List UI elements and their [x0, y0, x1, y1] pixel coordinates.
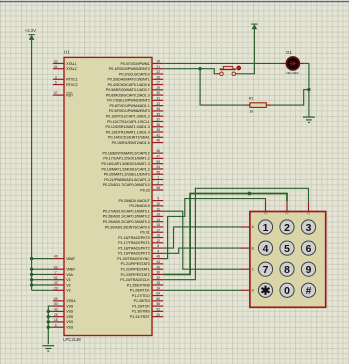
wire keypad row A from U1: [163, 227, 240, 248]
wire +3.3V rail to VBAT/VREF/V3A/V3: [31, 40, 33, 290]
svg-text:XTAL1: XTAL1: [66, 62, 76, 66]
svg-text:P0.0/TXD0/PWM1: P0.0/TXD0/PWM1: [120, 62, 149, 66]
svg-text:20: 20: [156, 313, 160, 317]
svg-text:P0.14/DCD1/EINT1/SDA1: P0.14/DCD1/EINT1/SDA1: [108, 136, 150, 140]
svg-text:VSS: VSS: [66, 320, 74, 324]
svg-text:36: 36: [156, 271, 160, 275]
U1 left pin stubs: [53, 63, 64, 327]
wire branch pin row 39: [32, 268, 53, 270]
svg-text:P0.10/RTS1/CAP1.0/AD1.2: P0.10/RTS1/CAP1.0/AD1.2: [106, 115, 150, 119]
wire net P0.0 to LED D1 anode: [163, 62, 281, 64]
svg-text:9: 9: [306, 265, 312, 276]
svg-text:14: 14: [156, 218, 160, 222]
svg-text:35: 35: [156, 112, 160, 116]
svg-text:D1: D1: [286, 50, 292, 55]
keypad key 5: [280, 241, 294, 255]
wire junction VSS rail row 50: [47, 326, 50, 329]
svg-text:41: 41: [156, 133, 160, 137]
svg-text:RST: RST: [66, 93, 74, 97]
svg-text:60: 60: [156, 297, 160, 301]
svg-text:26: 26: [156, 75, 160, 79]
U1 left pin numbers: [54, 60, 58, 328]
svg-text:33: 33: [156, 102, 160, 106]
svg-text:1: 1: [157, 176, 159, 180]
svg-text:LED-RED: LED-RED: [286, 71, 299, 75]
svg-text:8: 8: [157, 244, 159, 248]
svg-text:29: 29: [156, 86, 160, 90]
wire junction +3.3V rail row 39: [30, 267, 33, 270]
svg-text:38: 38: [156, 123, 160, 127]
sheet border: [0, 1, 349, 3]
svg-text:B: B: [252, 246, 254, 250]
svg-text:50: 50: [54, 302, 58, 306]
svg-text:21: 21: [156, 65, 160, 69]
svg-text:49: 49: [54, 255, 58, 259]
svg-text:P1.31/TRST: P1.31/TRST: [130, 315, 151, 319]
wire junction VSS rail row 47: [47, 310, 50, 313]
svg-text:22: 22: [156, 70, 160, 74]
keypad key 8: [280, 262, 294, 276]
svg-text:P0.20/MAT1.3/SSEL1/EINT3: P0.20/MAT1.3/SSEL1/EINT3: [104, 173, 150, 177]
svg-text:P0.29/AD0.2/CAP0.3/MAT0.3: P0.29/AD0.2/CAP0.3/MAT0.3: [103, 220, 150, 224]
svg-text:P0.1/RXD0/PWM3/EINT0: P0.1/RXD0/PWM3/EINT0: [109, 67, 150, 71]
svg-text:P0.21/PWM5/AD1.6/CAP1.3: P0.21/PWM5/AD1.6/CAP1.3: [104, 178, 150, 182]
svg-text:31: 31: [156, 96, 160, 100]
svg-text:P0.15/RI1/EINT2/AD1.5: P0.15/RI1/EINT2/AD1.5: [112, 141, 150, 145]
wire junction VSS rail row 48: [47, 315, 50, 318]
svg-text:P1.21/PIPESTAT0: P1.21/PIPESTAT0: [121, 262, 150, 266]
wire junction LED/R1 ground node: [307, 88, 310, 91]
svg-text:P1.26/RTCK: P1.26/RTCK: [130, 289, 151, 293]
keypad key 7: [258, 262, 272, 276]
keypad key 2: [280, 220, 294, 234]
keypad key *: [258, 283, 272, 297]
wire R1 right to ground node: [271, 90, 309, 106]
svg-text:18: 18: [54, 318, 58, 322]
svg-text:VSS: VSS: [66, 315, 74, 319]
svg-text:LPC2138: LPC2138: [63, 337, 81, 342]
svg-text:30: 30: [156, 91, 160, 95]
svg-text:34: 34: [156, 107, 160, 111]
svg-text:P0.31: P0.31: [140, 231, 149, 235]
svg-text:P0.26/AD0.5: P0.26/AD0.5: [129, 204, 149, 208]
svg-text:VREF: VREF: [66, 267, 75, 271]
wire junction node button/R1: [198, 67, 201, 70]
keypad KEYPAD-SMALLCALC: [250, 212, 326, 308]
wire keypad row D from U1: [163, 289, 240, 291]
keypad key 3: [301, 220, 315, 234]
svg-text:VSS: VSS: [66, 310, 74, 314]
svg-text:25: 25: [54, 313, 58, 317]
push button (to +3.3V): [216, 66, 241, 76]
svg-text:P0.6/MOSI0/CAP0.2/AD1.0: P0.6/MOSI0/CAP0.2/AD1.0: [106, 93, 150, 97]
svg-text:VSSA: VSSA: [66, 299, 76, 303]
svg-text:RTXC1: RTXC1: [66, 78, 77, 82]
svg-text:45: 45: [156, 139, 160, 143]
svg-text:3: 3: [55, 75, 57, 79]
svg-text:V3: V3: [66, 289, 70, 293]
wire button right to +3.3V: [238, 29, 255, 74]
wire keypad row C from U1: [163, 211, 240, 269]
svg-text:P1.16/TRACEPKT0: P1.16/TRACEPKT0: [118, 236, 150, 240]
svg-text:43: 43: [54, 281, 58, 285]
svg-text:P0.22/AD1.7/CAP0.0/MAT0.0: P0.22/AD1.7/CAP0.0/MAT0.0: [103, 183, 150, 187]
svg-text:P0.13/DTR1/MAT1.1/AD1.4: P0.13/DTR1/MAT1.1/AD1.4: [106, 130, 150, 134]
wire keypad column 1 from U1: [163, 199, 265, 259]
svg-text:2: 2: [157, 181, 159, 185]
keypad key 4: [258, 241, 272, 255]
wire junction +3.3V rail row 37: [30, 257, 33, 260]
svg-text:12: 12: [156, 239, 160, 243]
power +3.3V symbol (left): [25, 28, 36, 40]
svg-text:P1.25/EXTIN0: P1.25/EXTIN0: [127, 283, 150, 287]
svg-text:P1.17/TRACEPKT1: P1.17/TRACEPKT1: [118, 241, 150, 245]
svg-text:61: 61: [54, 65, 58, 69]
op: microcontroller U1 LPC2138: [63, 50, 152, 343]
keypad column labels: [264, 212, 311, 215]
svg-text:3: 3: [306, 223, 312, 234]
svg-text:P0.23: P0.23: [140, 188, 149, 192]
wire LED cathode down to ground: [305, 63, 309, 117]
svg-text:27: 27: [156, 81, 160, 85]
svg-text:56: 56: [156, 302, 160, 306]
keypad key #: [301, 283, 315, 297]
svg-text:6: 6: [306, 244, 312, 255]
svg-text:P1.23/PIPESTAT2: P1.23/PIPESTAT2: [121, 273, 150, 277]
keypad key 9: [301, 262, 315, 276]
svg-text:P1.22/PIPESTAT1: P1.22/PIPESTAT1: [121, 267, 150, 271]
wire keypad column 2 from U1 (thick): [163, 194, 287, 275]
wire branch pin row 40: [32, 273, 53, 275]
svg-text:16: 16: [156, 234, 160, 238]
svg-text:#: #: [306, 286, 312, 297]
svg-text:57: 57: [54, 91, 58, 95]
svg-text:52: 52: [156, 307, 160, 311]
svg-text:XTAL2: XTAL2: [66, 67, 76, 71]
keypad key 6: [301, 241, 315, 255]
svg-text:RTXC2: RTXC2: [66, 83, 77, 87]
svg-text:28: 28: [156, 281, 160, 285]
svg-text:10: 10: [156, 202, 160, 206]
wire VSS branch row 47: [48, 310, 53, 312]
svg-text:51: 51: [54, 276, 58, 280]
svg-text:6: 6: [55, 323, 57, 327]
svg-text:55: 55: [156, 170, 160, 174]
wire VSS rail to ground: [48, 306, 53, 344]
svg-text:P1.20/TRACESYNC: P1.20/TRACESYNC: [117, 257, 150, 261]
U1 right pin names: [102, 62, 151, 319]
svg-text:R1: R1: [249, 97, 254, 101]
svg-text:P0.16/EINT0/MAT0.2/CAP0.2: P0.16/EINT0/MAT0.2/CAP0.2: [103, 151, 150, 155]
svg-text:32: 32: [156, 276, 160, 280]
svg-text:44: 44: [156, 260, 160, 264]
svg-text:P0.27/AD0.0/CAP0.1/MAT0.1: P0.27/AD0.0/CAP0.1/MAT0.1: [103, 209, 150, 213]
wire junction VSS rail row 49: [47, 320, 50, 323]
wire junction on column 2 net: [248, 192, 252, 196]
svg-text:P0.2/SCL0/CAP0.0: P0.2/SCL0/CAP0.0: [119, 72, 150, 76]
svg-text:P1.28/TDI: P1.28/TDI: [134, 299, 150, 303]
svg-text:13: 13: [156, 213, 160, 217]
svg-text:46: 46: [156, 149, 160, 153]
svg-text:4: 4: [157, 249, 159, 253]
svg-text:9: 9: [157, 197, 159, 201]
svg-text:P0.25/AD0.4/AOUT: P0.25/AD0.4/AOUT: [118, 199, 150, 203]
svg-text:5: 5: [284, 244, 290, 255]
svg-text:40: 40: [156, 265, 160, 269]
svg-text:P1.29/TCK: P1.29/TCK: [132, 304, 150, 308]
wire branch pin row 42: [32, 284, 53, 286]
wire branch pin row 41: [32, 279, 53, 281]
svg-text:P0.8/TXD1/PWM4/AD1.1: P0.8/TXD1/PWM4/AD1.1: [109, 104, 149, 108]
svg-text:P0.3/SDA0/MAT0.0/EINT1: P0.3/SDA0/MAT0.0/EINT1: [108, 78, 150, 82]
svg-text:P1.18/TRACEPKT2: P1.18/TRACEPKT2: [118, 246, 150, 250]
svg-text:62: 62: [54, 60, 58, 64]
svg-text:42: 42: [54, 307, 58, 311]
svg-text:19: 19: [156, 60, 160, 64]
wire net P0.1 to button node: [163, 68, 200, 70]
svg-text:53: 53: [156, 160, 160, 164]
keypad row pin stubs: [241, 227, 250, 290]
svg-text:P0.5/MISO0/MAT0.1/AD0.7: P0.5/MISO0/MAT0.1/AD0.7: [106, 88, 150, 92]
svg-text:P1.30/TMS: P1.30/TMS: [132, 310, 151, 314]
svg-text:P0.28/AD0.1/CAP0.2/MAT0.2: P0.28/AD0.1/CAP0.2/MAT0.2: [103, 215, 150, 219]
svg-text:P0.18/CAP1.3/MISO1/MAT1.3: P0.18/CAP1.3/MISO1/MAT1.3: [102, 162, 150, 166]
svg-text:1k: 1k: [249, 109, 253, 113]
svg-text:V3: V3: [66, 283, 70, 287]
svg-text:48: 48: [156, 255, 160, 259]
wire keypad column 3 from U1: [163, 188, 308, 279]
svg-text:VSS: VSS: [66, 304, 74, 308]
svg-text:7: 7: [263, 265, 269, 276]
svg-text:1: 1: [263, 223, 269, 234]
U1 left pin names: [66, 62, 77, 330]
svg-text:15: 15: [156, 223, 160, 227]
svg-text:V3: V3: [66, 278, 70, 282]
wire VSS branch row 49: [48, 321, 53, 323]
resistor R1 1k: [245, 97, 271, 114]
svg-text:4: 4: [263, 244, 269, 255]
svg-text:0: 0: [284, 286, 290, 297]
svg-text:+3.3V: +3.3V: [25, 28, 36, 33]
LED D1 LED-RED: [281, 50, 305, 75]
wire button left branch: [200, 69, 216, 74]
svg-text:P0.12/DSR1/MAT1.0/AD1.3: P0.12/DSR1/MAT1.0/AD1.3: [106, 125, 150, 129]
power +3.3V symbol (right, above button): [251, 24, 257, 29]
svg-text:58: 58: [156, 186, 160, 190]
svg-text:11: 11: [157, 207, 161, 211]
keypad key 1: [258, 220, 272, 234]
svg-text:P0.7/SSEL0/PWM2/EINT2: P0.7/SSEL0/PWM2/EINT2: [107, 99, 150, 103]
wire branch pin row 43: [32, 289, 53, 291]
svg-text:P0.17/CAP1.2/SCK1/MAT1.2: P0.17/CAP1.2/SCK1/MAT1.2: [103, 157, 149, 161]
svg-text:V3A: V3A: [66, 273, 73, 277]
svg-text:8: 8: [284, 265, 290, 276]
svg-text:5: 5: [55, 81, 57, 85]
svg-text:17: 17: [156, 228, 160, 232]
wire junction +3.3V rail row 41: [30, 278, 33, 281]
U1 right pin stubs: [152, 63, 163, 316]
ground (right, LED/R1): [303, 117, 315, 122]
wire junction +3.3V rail row 40: [30, 273, 33, 276]
svg-text:37: 37: [156, 118, 160, 122]
keypad row labels A-D: [252, 225, 255, 292]
svg-text:P0.19/MAT1.2/MOSI1/CAP1.2: P0.19/MAT1.2/MOSI1/CAP1.2: [102, 167, 150, 171]
svg-text:P0.30/AD0.3/EINT3/CAP0.0: P0.30/AD0.3/EINT3/CAP0.0: [105, 225, 150, 229]
svg-text:U1: U1: [64, 50, 70, 55]
svg-text:47: 47: [156, 155, 160, 159]
wire keypad row B from U1: [163, 248, 240, 253]
svg-text:23: 23: [54, 286, 58, 290]
wire junction +3.3V rail row 42: [30, 283, 33, 286]
svg-text:P1.27/TDO: P1.27/TDO: [132, 294, 150, 298]
svg-text:63: 63: [54, 265, 58, 269]
wire branch pin row 37: [32, 258, 53, 260]
svg-text:P0.9/RXD1/PWM6/EINT3: P0.9/RXD1/PWM6/EINT3: [109, 109, 150, 113]
keypad key 0: [280, 283, 294, 297]
svg-text:39: 39: [156, 128, 160, 132]
svg-text:7: 7: [55, 271, 57, 275]
U1 right pin numbers: [156, 60, 160, 317]
wire node to R1 left: [200, 69, 245, 105]
svg-text:24: 24: [156, 286, 160, 290]
svg-text:VBAT: VBAT: [66, 257, 76, 261]
svg-text:P0.4/SCK0/CAP0.1/AD0.6: P0.4/SCK0/CAP0.1/AD0.6: [108, 83, 150, 87]
svg-text:54: 54: [156, 165, 160, 169]
svg-text:VSS: VSS: [66, 326, 74, 330]
wire VSS branch row 48: [48, 316, 53, 318]
wire VSS branch row 50: [48, 326, 53, 328]
svg-text:P0.11/CTS1/CAP1.1/SCL1: P0.11/CTS1/CAP1.1/SCL1: [107, 120, 150, 124]
svg-text:59: 59: [54, 297, 58, 301]
ground (bottom left, VSS): [42, 346, 54, 351]
svg-text:2: 2: [284, 223, 290, 234]
keypad column pin stubs: [266, 201, 309, 211]
svg-text:P1.19/TRACEPKT3: P1.19/TRACEPKT3: [118, 252, 150, 256]
svg-text:64: 64: [156, 292, 160, 296]
svg-text:P1.24/TRACECLK: P1.24/TRACECLK: [120, 278, 150, 282]
